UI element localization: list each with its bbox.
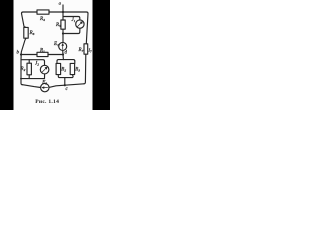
wire: J1 branch top — [63, 17, 80, 20]
wire: parallel combo bottom — [58, 75, 73, 86]
wire: parallel right top stub — [74, 61, 76, 63]
voltage source E1 — [59, 42, 67, 50]
wire: R5 bottom to E1 — [62, 29, 64, 42]
wire: bottom rail — [23, 84, 84, 88]
wire: R1 row right — [48, 54, 63, 56]
wire: R2 bottom stub — [28, 75, 30, 79]
wire: parallel combo top — [57, 60, 75, 61]
svg-text:E2: E2 — [41, 80, 47, 85]
node dot at a junction — [62, 11, 64, 13]
right black strip — [93, 0, 111, 110]
resistor R4 (top horizontal) — [37, 10, 49, 14]
resistor R1 (horizontal middle) — [37, 52, 48, 56]
arrow of E1 — [62, 44, 64, 50]
wire: lower-left branch bottom — [21, 74, 45, 79]
resistor R2 (lower-left vertical) — [27, 63, 31, 75]
svg-text:R2: R2 — [20, 67, 26, 72]
wire: top rail — [22, 12, 89, 14]
caption — [35, 99, 59, 105]
node c — [64, 84, 66, 86]
current source J2 — [40, 65, 49, 74]
arrow of J2 — [42, 67, 47, 72]
left black strip — [0, 0, 14, 110]
svg-text:R7: R7 — [78, 48, 84, 53]
node at left rail lower — [20, 78, 22, 80]
wire: left rail — [21, 14, 26, 85]
node a stub — [62, 5, 64, 12]
wire: stub d to parallel top — [62, 55, 64, 60]
wire: E1 bottom to node d — [62, 50, 64, 54]
arrow of E2 — [42, 87, 48, 89]
svg-text:R2: R2 — [60, 68, 66, 73]
wire: right rail — [84, 14, 88, 84]
node d — [62, 53, 64, 55]
resistor R6 (left vertical) — [24, 27, 28, 38]
wire: middle vertical upper — [62, 12, 64, 20]
svg-text:Рис. 1.14: Рис. 1.14 — [35, 99, 59, 105]
svg-text:J1: J1 — [72, 18, 76, 23]
svg-text:R1: R1 — [39, 49, 45, 54]
svg-text:R5: R5 — [55, 23, 61, 28]
wire: J1 bottom to junction — [63, 28, 80, 33]
svg-text:E1: E1 — [53, 42, 59, 47]
svg-text:R3: R3 — [74, 68, 80, 73]
current source J1 — [76, 20, 84, 28]
resistor R7 (right vertical) — [84, 44, 88, 54]
wire: stub to R2 box — [28, 60, 30, 64]
node dot at J1 junction — [62, 32, 64, 34]
resistor R5 (middle vertical) — [61, 20, 65, 29]
wire: R1 row left — [21, 54, 37, 56]
resistor R2p (parallel left) — [56, 63, 61, 74]
arrow of J1 — [77, 22, 82, 27]
svg-text:J2: J2 — [35, 62, 39, 67]
resistor R3 (parallel right) — [70, 63, 74, 74]
wire: lower-left branch top — [21, 60, 45, 66]
scan page background — [0, 0, 110, 110]
voltage source E2 — [41, 83, 49, 91]
wire: R2p top stub — [57, 61, 58, 63]
node b — [20, 53, 22, 55]
